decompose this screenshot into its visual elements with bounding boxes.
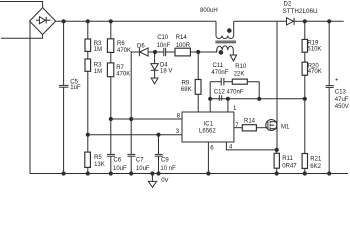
svg-text:470nF: 470nF: [211, 70, 228, 76]
transistor M1: [266, 120, 277, 131]
svg-text:10uF: 10uF: [136, 166, 150, 172]
svg-text:68K: 68K: [181, 87, 192, 93]
svg-text:450V: 450V: [335, 104, 349, 110]
svg-text:470K: 470K: [308, 69, 322, 75]
svg-text:1: 1: [233, 106, 237, 112]
capacitor C12: [219, 95, 221, 101]
ground arrow 0V: [148, 174, 156, 188]
node rail C7 bottom: [130, 172, 133, 175]
svg-text:10nF: 10nF: [157, 43, 171, 49]
resistor R3 upper 1M: [85, 21, 91, 51]
svg-text:R7: R7: [116, 65, 124, 71]
ground arrow below D4: [151, 78, 158, 84]
resistor R3 lower 1M: [85, 51, 91, 152]
wire AC input top: [0, 2, 43, 8]
svg-text:IC1: IC1: [204, 121, 214, 127]
capacitor C7: [127, 119, 135, 174]
svg-text:C7: C7: [136, 158, 144, 164]
svg-text:L6562: L6562: [199, 128, 216, 134]
node pin4 source: [275, 148, 278, 151]
resistor R19: [302, 21, 307, 52]
svg-text:6: 6: [210, 145, 214, 151]
svg-text:R14: R14: [176, 35, 188, 41]
node rail C6 bottom: [109, 172, 112, 175]
svg-text:D6: D6: [137, 43, 145, 49]
svg-text:R3: R3: [94, 41, 102, 47]
node rail C9 bottom: [157, 172, 160, 175]
svg-text:C6: C6: [113, 158, 121, 164]
capacitor C6: [107, 154, 115, 173]
polarity dot primary: [228, 29, 232, 33]
node rail R19: [303, 20, 306, 23]
svg-text:R14: R14: [244, 118, 256, 124]
node divider INV: [303, 97, 306, 100]
svg-text:0R47: 0R47: [282, 164, 297, 170]
svg-text:C11: C11: [213, 63, 224, 69]
svg-text:100R: 100R: [176, 43, 191, 49]
node rail gnd: [151, 172, 154, 175]
resistor R20: [302, 52, 307, 153]
svg-text:22K: 22K: [234, 72, 245, 78]
svg-text:R6: R6: [117, 41, 125, 47]
compensation node vertical pin2: [209, 82, 211, 112]
wire top rail left: [56, 20, 216, 22]
svg-text:R5: R5: [94, 155, 102, 161]
node R9 junction: [197, 50, 200, 53]
resistor R6: [107, 21, 113, 52]
svg-text:STTH2L06U: STTH2L06U: [283, 8, 318, 15]
svg-text:C10: C10: [157, 35, 169, 41]
resistor R14 gate: [242, 125, 266, 131]
ground arrow aux: [230, 55, 236, 61]
node pin8 C7: [130, 117, 133, 120]
wire pin4 CS: [226, 142, 276, 150]
node rail pin6: [207, 172, 210, 175]
svg-text:R3: R3: [94, 63, 102, 69]
resistor R5: [85, 152, 91, 173]
node rail R3: [86, 20, 89, 23]
inductor primary 800uH: [216, 21, 234, 38]
op-amp IC1 L6562 box: [182, 112, 234, 142]
svg-text:510K: 510K: [307, 47, 321, 53]
node rail R21 bottom: [303, 172, 306, 175]
transformer core: [215, 41, 236, 43]
svg-text:R21: R21: [310, 157, 322, 163]
resistor R9: [195, 52, 201, 112]
svg-text:13K: 13K: [94, 162, 105, 168]
resistor R21: [302, 154, 307, 174]
node rail R6: [109, 20, 112, 23]
node rail C13 bottom: [328, 172, 331, 175]
bridge rectifier: [30, 8, 56, 35]
wire bottom rail: [30, 173, 348, 175]
svg-text:C13: C13: [335, 90, 347, 96]
capacitor C11: [210, 78, 232, 86]
node D4 junction: [153, 50, 156, 53]
capacitor C13 electrolytic: [326, 21, 334, 173]
svg-text:C9: C9: [161, 158, 169, 164]
node pin3 C9: [157, 133, 160, 136]
wire bridge left vertex to bottom rail: [29, 21, 31, 173]
aux winding: [217, 46, 234, 55]
node pin1: [226, 97, 229, 100]
svg-text:1M: 1M: [94, 47, 102, 53]
svg-text:+: +: [335, 78, 339, 84]
wire INV: [210, 98, 305, 100]
svg-text:6K2: 6K2: [310, 164, 321, 170]
svg-text:800uH: 800uH: [200, 8, 218, 14]
node rail R11 bottom: [275, 172, 278, 175]
resistor R14 100R: [175, 48, 198, 56]
svg-text:C12 470nF: C12 470nF: [214, 89, 244, 95]
node pin3 divider: [86, 133, 89, 136]
svg-text:1M: 1M: [94, 69, 102, 75]
svg-text:R9: R9: [182, 80, 190, 86]
resistor R7: [107, 52, 113, 154]
wire to C10: [155, 51, 164, 53]
svg-text:0V: 0V: [161, 178, 168, 184]
svg-text:470K: 470K: [117, 48, 131, 54]
wire pin7 gate: [234, 127, 242, 129]
svg-text:1uF: 1uF: [70, 85, 81, 91]
diode D2: [287, 18, 295, 25]
wire D6 branch to Vcc: [131, 52, 139, 119]
zener diode D4: [151, 52, 158, 78]
wire pin3 MULT: [88, 134, 182, 136]
svg-text:3: 3: [176, 129, 180, 135]
node rail C5: [62, 20, 65, 23]
node R10 INV: [258, 97, 261, 100]
capacitor C5: [59, 21, 69, 173]
polarity dot aux: [219, 51, 223, 55]
svg-text:10 nF: 10 nF: [160, 166, 176, 172]
wire top rail right: [234, 20, 287, 22]
wire pin8 Vcc: [111, 118, 182, 120]
wire pin1 INV: [227, 99, 229, 112]
svg-text:M1: M1: [281, 125, 290, 131]
svg-text:D2: D2: [284, 2, 292, 8]
svg-text:470K: 470K: [116, 72, 130, 78]
wire pin6 GND: [207, 142, 209, 174]
svg-text:R10: R10: [235, 64, 247, 70]
wire to aux winding: [198, 50, 217, 52]
node comp: [209, 97, 212, 100]
node rail C5 bottom: [62, 172, 65, 175]
node rail C13: [328, 20, 331, 23]
svg-text:18 V: 18 V: [160, 68, 172, 74]
resistor R10: [232, 79, 259, 99]
svg-text:R11: R11: [282, 156, 293, 162]
wire AC input bottom: [1, 35, 43, 39]
node pin8 R7: [109, 117, 112, 120]
svg-text:47uF: 47uF: [335, 97, 349, 103]
node rail R5 bottom: [86, 172, 89, 175]
capacitor C9: [155, 135, 163, 174]
wire M1 drain: [276, 21, 278, 150]
capacitor C10: [164, 48, 175, 56]
svg-text:10uF: 10uF: [113, 166, 127, 172]
resistor R11: [274, 150, 279, 174]
diode D6: [139, 48, 155, 57]
